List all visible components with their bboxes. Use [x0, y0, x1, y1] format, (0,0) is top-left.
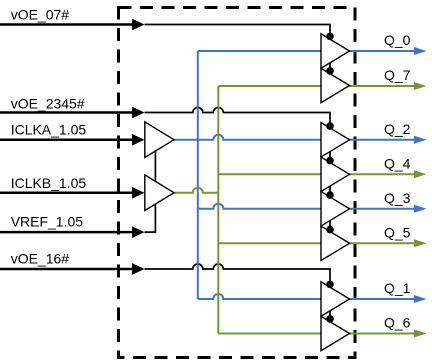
tri-state buffer Q_1 [321, 282, 350, 317]
arrowhead vOE_16# [132, 263, 145, 275]
svg-text:Q_1: Q_1 [384, 280, 411, 296]
output arrowhead Q_6 [414, 330, 427, 338]
svg-text:vOE_07#: vOE_07# [11, 7, 70, 23]
wire ICLKB_1.05 bold input segment [0, 192, 133, 195]
output arrowhead Q_0 [414, 47, 427, 55]
svg-text:Q_7: Q_7 [384, 67, 411, 83]
tri-state buffer Q_3 [321, 192, 350, 227]
arrowhead vOE_2345# [132, 107, 145, 119]
enable bubble Q_3 [326, 191, 334, 199]
svg-text:vOE_2345#: vOE_2345# [11, 96, 85, 112]
enable bubble Q_4 [326, 157, 334, 165]
wire vOE_16# thin net with hops to enables of Q_1/Q_6 [145, 264, 331, 319]
tri-state buffer Q_6 [321, 316, 350, 351]
wire blue ICLKA output to Q_2 with hop over green [173, 135, 420, 140]
wire vOE_07# bold input segment [0, 23, 133, 26]
wire vOE_16# bold input segment [0, 268, 133, 271]
svg-text:ICLKB_1.05: ICLKB_1.05 [11, 175, 87, 191]
wire green to Q_4 [218, 173, 420, 175]
arrowhead ICLKA_1.05 [132, 134, 145, 146]
dashed block boundary [119, 8, 356, 358]
wire green to Q_7 [218, 85, 420, 87]
output arrowhead Q_5 [414, 239, 427, 247]
svg-text:Q_3: Q_3 [384, 190, 411, 206]
output arrowhead Q_1 [414, 295, 427, 303]
buffer ICLKB [145, 175, 174, 211]
wire vOE_2345# thin net with hops to enables of Q_2/Q_4/Q_3/Q_5 [145, 108, 331, 230]
wire ICLKA_1.05 bold input segment [0, 139, 133, 142]
wire green to Q_5 [218, 242, 420, 244]
wire green to Q_6 [218, 333, 420, 335]
node green clock distribution vertical [217, 86, 219, 334]
svg-text:ICLKA_1.05: ICLKA_1.05 [11, 122, 87, 138]
svg-text:Q_5: Q_5 [384, 224, 411, 240]
wire blue to Q_3 with hop over green [198, 204, 420, 209]
wire VREF_1.05 thin net to buffer references [145, 150, 156, 232]
wire green ICLKB output with hop over blue [173, 188, 218, 193]
tri-state buffer Q_2 [321, 123, 350, 158]
enable bubble Q_2 [326, 122, 334, 130]
tri-state buffer Q_7 [321, 68, 350, 103]
enable bubble Q_7 [326, 67, 334, 75]
arrowhead vOE_07# [132, 19, 145, 31]
svg-text:Q_6: Q_6 [384, 315, 411, 331]
buffer ICLKA [145, 122, 174, 158]
wire blue to Q_0 [198, 50, 420, 52]
output arrowhead Q_3 [414, 205, 427, 213]
arrowhead ICLKB_1.05 [132, 187, 145, 199]
enable bubble Q_1 [326, 281, 334, 289]
enable bubble Q_0 [326, 33, 334, 41]
wire blue to Q_1 with hop over green [198, 294, 420, 299]
wire vOE_2345# bold input segment [0, 111, 133, 114]
svg-text:Q_0: Q_0 [384, 32, 411, 48]
tri-state buffer Q_0 [321, 34, 350, 69]
enable bubble Q_5 [326, 226, 334, 234]
tri-state buffer Q_4 [321, 157, 350, 192]
svg-text:vOE_16#: vOE_16# [11, 250, 70, 266]
output arrowhead Q_2 [414, 136, 427, 144]
wire VREF_1.05 bold input segment [0, 231, 133, 234]
wire vOE_07# thin net to enables of Q_0/Q_7 [145, 25, 331, 72]
svg-text:VREF_1.05: VREF_1.05 [11, 214, 84, 230]
tri-state buffer Q_5 [321, 226, 350, 260]
svg-text:Q_2: Q_2 [384, 121, 411, 137]
arrowhead VREF_1.05 [132, 226, 145, 238]
output arrowhead Q_4 [414, 170, 427, 178]
output arrowhead Q_7 [414, 82, 427, 90]
node blue clock distribution vertical [197, 51, 199, 299]
svg-text:Q_4: Q_4 [384, 155, 411, 171]
enable bubble Q_6 [326, 315, 334, 323]
